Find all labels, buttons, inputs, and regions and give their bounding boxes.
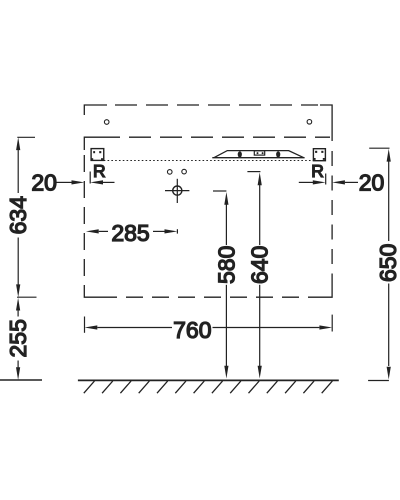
cabinet second dashed line (worktop): [98, 136, 330, 138]
svg-text:255: 255: [5, 319, 31, 357]
dim 285: arrowhead pointing left at cabinet edge: [86, 229, 99, 233]
dim 20 left: arrowhead pointing left at bracket edge: [90, 180, 103, 184]
dim 650: top tick: [369, 147, 389, 149]
bracket right bottom notch A: [314, 158, 316, 160]
dim 634: upper shaft: [17, 150, 19, 193]
faucet crosshair horizontal axis: [165, 190, 189, 192]
svg-text:285: 285: [111, 220, 149, 246]
svg-text:650: 650: [375, 244, 400, 282]
dim 640: top arrowhead pointing up: [258, 172, 262, 185]
dim 255: upper shaft: [17, 310, 19, 317]
dim 760: line right segment: [213, 327, 320, 329]
dim 634: top tick: [17, 136, 35, 138]
svg-text:20: 20: [31, 170, 57, 196]
cabinet bottom-right corner: [320, 285, 332, 297]
bracket right bottom notch B: [323, 158, 325, 160]
svg-text:760: 760: [173, 317, 211, 343]
bracket right screw dot A: [315, 151, 317, 153]
rail plate dot A: [257, 152, 259, 154]
dim 255: top arrowhead pointing up: [16, 298, 20, 311]
dim 634: top arrowhead pointing up: [16, 137, 20, 150]
dim 640: lower shaft: [259, 285, 261, 367]
rail screw right: [276, 151, 280, 157]
cabinet top dashed line: [115, 104, 318, 106]
rail center plate: [254, 151, 264, 155]
dim 650: bottom arrowhead pointing down: [387, 367, 391, 380]
dim 285: arrowhead pointing right at faucet axis: [165, 229, 178, 233]
dim 20 right: line to text: [345, 181, 358, 183]
dim 20 left: tail line: [103, 181, 115, 183]
cabinet bottom dashed line: [100, 296, 320, 298]
dim 20 right: arrowhead pointing right at bracket edge: [313, 180, 326, 184]
basin fixing hole right: [182, 169, 187, 174]
cabinet right edge dashed: [331, 151, 333, 285]
dim 760: right extension tick: [331, 315, 333, 332]
svg-text:R: R: [311, 161, 324, 181]
dim 580: top arrowhead pointing up: [224, 192, 228, 205]
fixing hole circle top-left: [104, 120, 109, 125]
rail plate dot B: [262, 152, 264, 154]
fixing hole circle top-right: [307, 120, 312, 125]
dim 255: bottom arrowhead pointing down: [16, 367, 20, 380]
faucet crosshair vertical axis: [176, 179, 178, 203]
dim 634: lower shaft: [17, 238, 19, 285]
cabinet second line left corner: [84, 137, 98, 150]
dim 634: bottom arrowhead pointing down: [16, 284, 20, 297]
dim 650: bottom tick: [368, 380, 389, 382]
basin fixing hole left: [167, 170, 172, 175]
dim 580: upper shaft: [225, 204, 227, 245]
floor hatching: [84, 381, 333, 393]
dim 640: bottom arrowhead pointing down at floor: [258, 366, 262, 379]
dim 760: left extension tick: [84, 317, 86, 333]
dim 650: top arrowhead pointing up: [387, 149, 391, 162]
dim 285: line left segment: [99, 230, 108, 232]
dim 255: floor level tick to image edge: [0, 379, 42, 381]
wall bracket right: [313, 149, 325, 161]
cabinet top-right corner: [320, 105, 332, 141]
dim 20 right: tail line: [299, 181, 313, 183]
dotted reference line between brackets: [104, 160, 314, 162]
cabinet top-left corner: [84, 105, 107, 115]
dim 20 left: arrowhead pointing right at cabinet edge: [72, 180, 85, 184]
dim 285: line right segment: [153, 230, 165, 232]
cabinet left edge dashed: [83, 155, 85, 288]
svg-text:580: 580: [213, 246, 239, 284]
bracket left bottom notch A: [91, 158, 93, 160]
svg-text:640: 640: [247, 246, 273, 284]
dim 650: upper shaft: [388, 161, 390, 241]
dim 255: lower shaft: [17, 361, 19, 369]
cabinet bottom-left corner: [84, 288, 100, 297]
bracket left screw dot A: [93, 151, 95, 153]
dim 580: lower shaft: [225, 285, 227, 367]
dim 634/255 shared tick: [17, 296, 37, 298]
dim 760: line left segment: [97, 327, 172, 329]
dim 20 left: line from text: [57, 181, 73, 183]
faucet axis tick on 285 line: [176, 229, 178, 233]
dim 580: bottom arrowhead pointing down at floor: [224, 366, 228, 379]
dim 760: left arrowhead pointing left: [85, 325, 98, 329]
dim 760: right arrowhead pointing right: [319, 325, 332, 329]
rail screw left: [238, 151, 242, 157]
svg-text:R: R: [93, 161, 106, 181]
svg-text:634: 634: [5, 196, 31, 235]
dim 640: top tick: [247, 171, 260, 173]
wall bracket left: [91, 149, 104, 161]
dim 20 left: bracket edge extension tick: [89, 172, 91, 184]
bracket left screw dot B: [99, 151, 101, 153]
bracket left bottom notch B: [101, 158, 103, 160]
dim 640: upper shaft: [259, 185, 261, 245]
faucet crosshair circle: [173, 186, 182, 195]
dim 20 right: arrowhead pointing left at cabinet edge: [332, 180, 345, 184]
floor line: [78, 379, 339, 381]
svg-text:20: 20: [359, 170, 385, 196]
dim 580: top tick: [213, 190, 226, 192]
dim 20 right: bracket edge extension tick: [325, 174, 327, 185]
bracket right screw dot B: [321, 151, 323, 153]
dim 650: lower shaft: [388, 284, 390, 367]
mounting rail trapezoid: [212, 151, 304, 158]
